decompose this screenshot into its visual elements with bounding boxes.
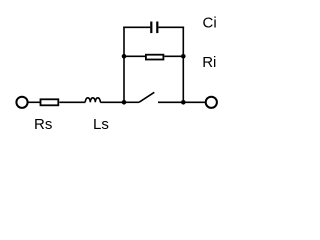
wire [164, 55, 183, 57]
svg-text:Ci: Ci [203, 14, 217, 31]
wire (left vertical) [123, 27, 125, 103]
wire [124, 101, 139, 103]
wire (top right) [158, 26, 184, 28]
wire [100, 101, 124, 103]
resistor Rs [41, 99, 59, 105]
resistor Ri [146, 55, 164, 60]
node C (junction dot middle-left) [122, 54, 127, 59]
svg-text:Rs: Rs [34, 116, 52, 133]
node A (junction dot bottom-left) [122, 100, 127, 105]
wire [183, 101, 206, 103]
wire [124, 55, 145, 57]
capacitor Ci [151, 22, 157, 34]
node B (junction dot bottom-right) [181, 100, 186, 105]
inductor Ls [85, 98, 100, 103]
switch S1 blade [139, 92, 154, 102]
wire (top left) [123, 26, 150, 28]
terminal left [16, 97, 27, 108]
wire [158, 101, 183, 103]
svg-text:Ls: Ls [93, 116, 109, 133]
terminal right [206, 97, 217, 108]
wire (right vertical) [182, 27, 184, 103]
wire [28, 101, 40, 103]
node D (junction dot middle-right) [181, 54, 186, 59]
wire [59, 101, 85, 103]
svg-text:Ri: Ri [202, 54, 216, 71]
